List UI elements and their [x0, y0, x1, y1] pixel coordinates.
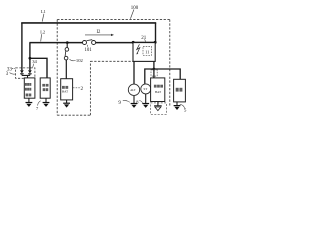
- leader for 34: [33, 64, 34, 68]
- ground under box B: [45, 98, 47, 102]
- sub battery box 2: [61, 79, 73, 100]
- wire L1 left leg down to diode: [21, 23, 23, 70]
- svg-text:ALT: ALT: [130, 88, 136, 92]
- svg-text:I2: I2: [97, 30, 102, 35]
- starter circle ST: [141, 84, 151, 94]
- load box B text (2 lines): [42, 84, 48, 91]
- svg-text:100: 100: [131, 6, 139, 11]
- leader for 102: [70, 59, 76, 61]
- wire L2 left leg down to diode: [29, 43, 31, 71]
- dashed box around main battery ground: [151, 103, 167, 114]
- diode D2: [28, 70, 32, 73]
- switch 102 armature: [64, 51, 67, 56]
- general load box B: [40, 78, 50, 98]
- ground under sub battery: [66, 100, 68, 103]
- sub battery text: [62, 86, 68, 89]
- ground under load box: [176, 102, 178, 106]
- switch 102 stem: [66, 43, 68, 48]
- main battery text: [154, 85, 163, 88]
- ground under ST: [145, 94, 147, 104]
- svg-text:2: 2: [81, 86, 84, 92]
- wire L1 top horizontal: [21, 22, 156, 24]
- leader for 3: [10, 73, 16, 75]
- right bus wire to ST / load: [145, 69, 180, 84]
- svg-text:34: 34: [32, 59, 37, 64]
- svg-text:8: 8: [136, 99, 139, 104]
- node dot on L2 at branch: [29, 57, 32, 60]
- dashed sub-box 11 inside box 21: [143, 47, 152, 56]
- leader for 5: [180, 104, 185, 108]
- svg-text:11: 11: [145, 50, 149, 55]
- zigzag switch symbol in box 21: [137, 44, 140, 53]
- alternator circle ALT: [128, 84, 139, 95]
- load box text: [176, 88, 183, 92]
- switch 102 upper contact: [65, 48, 69, 52]
- svg-text:3: 3: [6, 72, 9, 77]
- leader for 21: [145, 39, 146, 41]
- node dot on right bus: [153, 68, 156, 71]
- diode output join wires: [22, 74, 30, 78]
- switch 101 armature: [87, 39, 93, 42]
- svg-text:BAT: BAT: [155, 90, 161, 94]
- ground under main battery (open): [157, 102, 159, 106]
- current arrow I2: [85, 34, 112, 36]
- svg-text:5: 5: [184, 108, 187, 113]
- svg-text:33: 33: [7, 68, 12, 73]
- svg-text:7: 7: [36, 106, 39, 111]
- leader for 9: [123, 100, 130, 102]
- dashed fuse box on main battery feed: [151, 70, 157, 76]
- leader for 8: [139, 100, 142, 102]
- svg-text:BAT: BAT: [62, 89, 68, 93]
- diode unit dashed box 33: [16, 68, 35, 78]
- switch 101 left contact: [83, 41, 87, 45]
- leader for L2: [40, 34, 43, 41]
- node dot box21 top-left: [132, 41, 135, 44]
- wire from 102 down to sub battery: [65, 60, 67, 79]
- svg-text:ST: ST: [144, 87, 148, 91]
- label 2 with dashes: [73, 87, 80, 89]
- wire L1 right leg down to box 21: [155, 23, 157, 43]
- svg-text:L1: L1: [41, 9, 46, 14]
- leader for L1: [42, 14, 44, 22]
- leader for 7: [38, 101, 41, 106]
- wire L2 horizontal (left of switch 101): [29, 42, 82, 44]
- wire box21 down to main battery node: [153, 61, 155, 78]
- main battery box: [151, 78, 165, 102]
- node dot on L2 at switch 102: [66, 41, 69, 44]
- svg-text:9: 9: [118, 101, 121, 106]
- wire L2 horizontal (right of switch 101): [96, 42, 134, 44]
- box 21: [133, 42, 155, 61]
- ground under ALT: [133, 96, 135, 104]
- node dot box21 top-right: [154, 41, 157, 44]
- leader for 100: [130, 10, 134, 19]
- switch 101 right contact: [92, 41, 96, 45]
- wire branch to load box B: [30, 58, 47, 78]
- box 21 top edge wire: [133, 41, 155, 43]
- backup load box A text (3 lines): [25, 83, 31, 96]
- wire box21 to ALT: [133, 61, 135, 84]
- svg-text:L2: L2: [40, 29, 45, 34]
- diode D1: [20, 70, 24, 73]
- svg-text:21: 21: [141, 36, 147, 41]
- switch 102 lower contact: [64, 56, 68, 60]
- svg-text:102: 102: [76, 58, 84, 63]
- dashed enclosure 100 boundary: [57, 20, 170, 116]
- backup load box A: [24, 78, 35, 98]
- svg-text:101: 101: [85, 48, 93, 53]
- leader for 101: [86, 45, 88, 47]
- load box right: [174, 79, 186, 102]
- leader dashes for 33: [12, 67, 15, 69]
- ground under box A: [28, 98, 30, 102]
